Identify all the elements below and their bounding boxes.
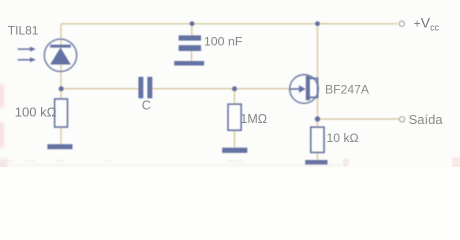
- svg-text:BF247A: BF247A: [325, 82, 370, 96]
- ground bar under 100nF: [174, 61, 204, 66]
- svg-text:Saída: Saída: [409, 112, 444, 127]
- JFET channel bar: [306, 76, 310, 100]
- photodiode cathode bar: [50, 45, 71, 48]
- wire: +Vcc top rail: [61, 23, 397, 25]
- junction dot: 1M at middle node: [232, 86, 237, 91]
- wire: 100nF branch from rail: [191, 24, 193, 36]
- junction dot: drain at rail: [315, 21, 320, 26]
- wire: 1M to ground: [234, 130, 236, 148]
- wire: source branch to output node: [317, 98, 319, 128]
- svg-text:100 kΩ: 100 kΩ: [15, 105, 57, 120]
- svg-text:100 nF: 100 nF: [204, 35, 243, 49]
- capacitor C plate left: [138, 77, 143, 99]
- JFET gate arrowhead: [299, 85, 306, 93]
- capacitor C1 100nF plate 1: [179, 35, 201, 40]
- wire: Saida output wire: [318, 118, 399, 120]
- svg-text:10 kΩ: 10 kΩ: [327, 131, 359, 145]
- faint pink scan edge bottom-right: [452, 157, 460, 167]
- photodiode D1 TIL81 circle: [44, 39, 76, 71]
- wire: 1M branch from middle node: [234, 89, 236, 104]
- resistor R2 1M body: [228, 104, 241, 130]
- junction dot: 100nF at rail: [190, 21, 195, 26]
- resistor R3 10k body: [311, 127, 324, 152]
- wire: left vertical through photodiode: [60, 24, 62, 99]
- ground bar under 1M: [222, 148, 247, 153]
- JFET Q1 BF247A circle: [290, 75, 319, 104]
- wire: 100nF to ground: [191, 51, 193, 62]
- capacitor C plate right: [147, 77, 152, 99]
- wire: drain branch from rail: [317, 24, 319, 78]
- faint pink smudge near right ground: [343, 158, 349, 167]
- svg-text:1MΩ: 1MΩ: [240, 112, 267, 126]
- pink scan mark bottom-left corner: [0, 158, 7, 169]
- wire: middle node right segment to gate: [152, 88, 290, 90]
- terminal Saida open circle: [399, 117, 404, 122]
- JFET drain lead: [310, 77, 318, 79]
- ground bar under 100k: [47, 144, 72, 149]
- svg-text:TIL81: TIL81: [8, 24, 39, 38]
- light arrow 2: [18, 59, 31, 61]
- faint print-through smudges: [5, 160, 242, 163]
- JFET right vertical segment: [317, 78, 319, 99]
- wire: 10k to ground: [317, 152, 319, 160]
- light arrow 1: [18, 48, 31, 50]
- faint pink band along bottom edge: [0, 163, 346, 167]
- junction dot: photodiode / 100k / middle node: [59, 86, 64, 91]
- resistor R1 100k body: [55, 99, 68, 127]
- pink scan mark left edge lower: [0, 122, 4, 148]
- capacitor C1 100nF plate 2: [179, 45, 201, 51]
- paper background: [0, 0, 460, 167]
- wire: 100k to ground: [60, 127, 62, 144]
- terminal +Vcc open circle: [399, 21, 404, 26]
- JFET gate lead: [290, 88, 299, 90]
- photodiode triangle: [50, 48, 71, 65]
- svg-text:C: C: [142, 99, 151, 113]
- ground bar under 10k: [305, 160, 327, 165]
- wire: middle node left segment: [61, 88, 138, 90]
- JFET source lead: [310, 96, 318, 98]
- pink scan mark left edge upper: [0, 84, 4, 108]
- junction dot: source output node: [315, 116, 320, 121]
